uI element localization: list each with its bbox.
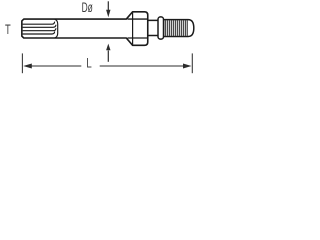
tip grind boundary arc <box>55 19 58 38</box>
svg-text:Dø: Dø <box>82 0 94 15</box>
bit body outline (tip, shaft, flare, hex collar) <box>22 12 148 46</box>
flute line 2 <box>23 25 56 28</box>
collar facet lines (hex flats) <box>128 19 148 38</box>
neck between collar and bead <box>148 20 158 35</box>
background <box>0 0 200 79</box>
collar left face line <box>132 12 134 45</box>
svg-text:T: T <box>5 21 11 37</box>
L dimension left arrowhead <box>23 64 32 69</box>
Dø up arrow (shaft diameter, below) <box>106 44 110 62</box>
flute line 3 <box>23 28 56 31</box>
L dimension left extension line <box>21 53 23 73</box>
svg-text:L: L <box>86 56 92 72</box>
Dø down arrow (shaft diameter, above) <box>106 1 110 17</box>
thread crest lines <box>165 20 187 36</box>
L dimension right extension line <box>191 53 193 73</box>
flute line 4 <box>23 32 55 35</box>
L dimension line right segment <box>100 65 185 67</box>
thread body with dome end <box>164 20 194 37</box>
L dimension line left segment <box>30 65 81 67</box>
bead flange <box>158 17 164 39</box>
L dimension right arrowhead <box>183 64 192 69</box>
flute line 1 <box>23 22 55 25</box>
